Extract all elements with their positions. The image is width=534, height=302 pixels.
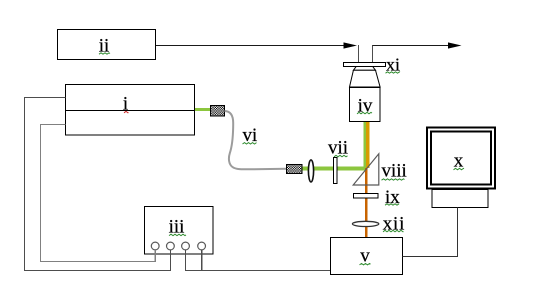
svg-text:viii: viii <box>382 161 407 182</box>
svg-text:vii: vii <box>328 138 348 159</box>
svg-text:xi: xi <box>386 55 400 75</box>
